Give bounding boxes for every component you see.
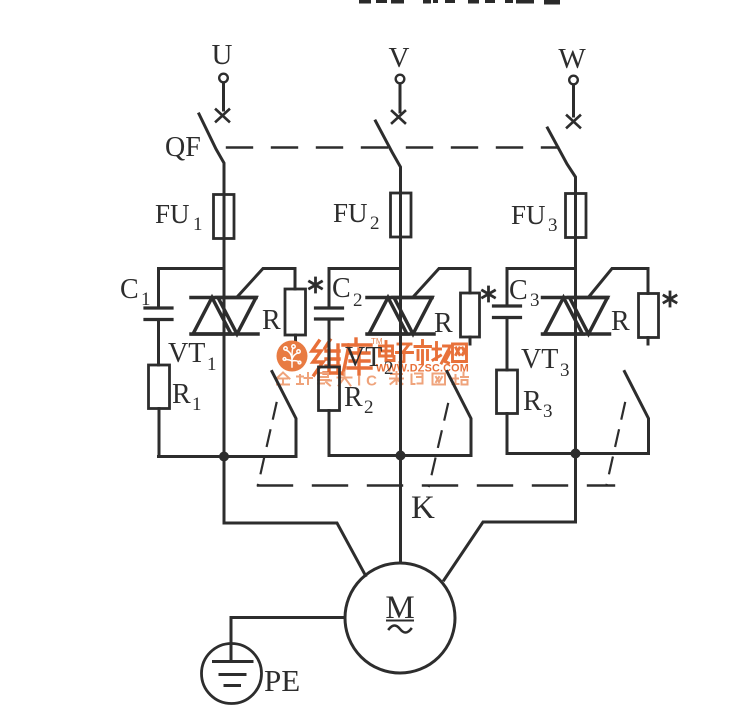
resistor R3 label: [523, 386, 553, 422]
svg-text:K: K: [411, 490, 435, 526]
resistor R label module3: [611, 306, 630, 337]
triac VT2 label: [345, 342, 394, 379]
svg-text:3: 3: [548, 215, 558, 236]
wire phase1 to motor: [224, 457, 366, 576]
capacitor C1: [145, 308, 172, 320]
svg-text:1: 1: [193, 214, 203, 235]
wire phase2 to motor: [399, 456, 402, 563]
capacitor C1 label: [120, 274, 151, 310]
contactor K pole 1 linkage dashed: [258, 403, 277, 485]
resistor R module1: [285, 289, 306, 335]
svg-text:1: 1: [207, 354, 217, 375]
contact cross U: [216, 110, 229, 122]
resistor R label module1: [262, 305, 281, 336]
wire R to contact module3: [647, 338, 650, 345]
watermark logo disc: [277, 341, 308, 372]
capacitor C2 label: [332, 273, 363, 311]
capacitor C2: [316, 308, 343, 319]
wire VT2 anode to bottom: [399, 334, 402, 456]
node U label: [212, 39, 233, 71]
wire VT1 anode to bottom: [223, 334, 226, 457]
terminal W: [569, 76, 578, 85]
motor underline: [387, 620, 413, 622]
triac VT3: [543, 298, 610, 335]
contactor K label: [411, 490, 435, 526]
wire module1 top: [159, 267, 225, 270]
triac VT1: [191, 298, 258, 335]
breaker QF pole 1 blade: [199, 114, 224, 194]
resistor R label module2: [434, 308, 453, 339]
ground PE symbol: [202, 644, 262, 704]
svg-text:R: R: [434, 308, 453, 339]
wire FU2 to module 2: [399, 237, 402, 298]
fuse FU2 label: [333, 198, 380, 234]
watermark char zi: [397, 344, 413, 363]
wire top to C2: [328, 269, 331, 309]
WATERMARK-UNDER: [277, 337, 469, 390]
svg-text:2: 2: [384, 358, 394, 379]
wire C2 to R2: [328, 319, 331, 367]
svg-text:VT: VT: [345, 342, 382, 373]
svg-text:2: 2: [353, 290, 363, 311]
watermark char chang: [433, 343, 450, 364]
node W label: [558, 43, 586, 75]
wire R3 to bottom: [506, 414, 509, 454]
resistor R2: [319, 367, 340, 411]
wire C3 to R3: [506, 318, 509, 371]
resistor R1 label: [172, 379, 202, 415]
WATERMARK-OVER: [277, 341, 308, 372]
svg-text:3: 3: [530, 290, 540, 311]
svg-text:C: C: [120, 274, 139, 305]
contactor K pole 2 blade: [447, 372, 471, 456]
wire through VT3: [574, 298, 577, 335]
watermark big char ku: [343, 339, 371, 374]
contactor K pole 1 blade: [272, 372, 296, 457]
node V label: [389, 42, 410, 74]
svg-text:V: V: [389, 42, 410, 74]
wire VT3 gate: [590, 269, 649, 297]
wire module3 top: [507, 267, 576, 270]
svg-text:R: R: [172, 379, 191, 410]
resistor R3: [497, 370, 518, 414]
svg-text:U: U: [212, 39, 233, 71]
watermark logo sprout: [283, 345, 301, 367]
wire top to C1: [157, 269, 160, 309]
svg-text:2: 2: [370, 213, 380, 234]
wire VT1 gate: [238, 269, 295, 297]
fuse FU1 label: [155, 199, 203, 235]
svg-text:VT: VT: [521, 344, 558, 375]
star mark module1: [310, 278, 322, 292]
wire through VT2: [399, 298, 402, 335]
resistor R module2: [461, 293, 480, 337]
svg-text:3: 3: [560, 360, 570, 381]
triac VT3 label: [521, 344, 570, 381]
fuse FU1: [214, 195, 235, 239]
wire phase3 to motor: [444, 454, 576, 581]
wire V terminal to contact: [399, 84, 402, 112]
wire C1 to R1: [157, 320, 160, 366]
wire FU3 to module 3: [574, 238, 577, 298]
wire top to C3: [506, 269, 509, 307]
svg-text:2: 2: [364, 397, 374, 418]
ground PE label: [264, 663, 300, 698]
wire U terminal to contact: [222, 83, 225, 110]
contactor K linkage dashed horizontal: [258, 484, 614, 486]
svg-text:VT: VT: [168, 338, 205, 369]
svg-text:C: C: [332, 273, 351, 304]
wire FU1 to module 1: [223, 239, 226, 298]
wire W terminal to contact: [572, 85, 575, 116]
watermark char shi: [415, 341, 431, 364]
watermark slogan IC: [357, 373, 382, 390]
svg-text:R: R: [262, 305, 281, 336]
svg-text:FU: FU: [155, 199, 190, 229]
wire through VT1: [223, 298, 226, 335]
wire module3 bottom: [507, 452, 649, 455]
watermark char wang: [453, 344, 467, 362]
breaker QF pole 2 blade: [376, 121, 401, 193]
breaker QF label: [165, 132, 201, 163]
title text cut off at top edge: [359, 0, 560, 5]
watermark char dian: [380, 342, 395, 361]
junction module1: [219, 452, 229, 462]
wire R1 to bottom: [158, 409, 161, 457]
resistor R2 label: [344, 382, 374, 418]
wire R to contact module1: [294, 335, 297, 344]
wire module2 bottom: [329, 454, 471, 457]
svg-text:FU: FU: [333, 198, 368, 228]
svg-text:R: R: [611, 306, 630, 337]
watermark slogan row: [277, 372, 469, 386]
triac VT1 label: [168, 338, 217, 375]
svg-text:W: W: [558, 43, 586, 75]
watermark TM mark: [371, 337, 383, 346]
motor M1: [345, 563, 455, 673]
svg-text:QF: QF: [165, 132, 201, 163]
fuse FU3: [566, 194, 587, 238]
junction module2: [396, 451, 406, 461]
wire module1 bottom: [159, 455, 297, 458]
star mark module3: [664, 292, 676, 306]
capacitor C3 label: [509, 275, 540, 311]
terminal V: [396, 75, 405, 84]
capacitor C3: [494, 306, 521, 318]
contact cross V: [392, 111, 405, 123]
wire VT2 gate: [414, 269, 470, 297]
svg-text:1: 1: [192, 394, 202, 415]
triac VT2: [367, 298, 434, 335]
wire module2 top: [329, 267, 401, 270]
wire R to contact module2: [469, 337, 472, 344]
wire motor to PE: [231, 618, 344, 645]
contactor K pole 3 linkage dashed: [607, 403, 626, 485]
fuse FU2: [391, 193, 412, 237]
motor tilde: [389, 626, 411, 633]
wire VT3 anode to bottom: [574, 334, 577, 454]
breaker QF linkage dashed: [227, 146, 558, 148]
contactor K pole 2 linkage dashed: [429, 404, 448, 486]
svg-text:3: 3: [543, 401, 553, 422]
fuse FU3 label: [511, 200, 558, 236]
svg-text:FU: FU: [511, 200, 546, 230]
watermark big char wei: [312, 340, 340, 375]
terminal U: [219, 74, 228, 83]
resistor R1: [149, 365, 170, 409]
watermark url: [376, 363, 469, 375]
breaker QF pole 3 blade: [548, 128, 576, 194]
contactor K pole 3 blade: [625, 372, 649, 454]
junction module3: [571, 449, 581, 459]
resistor R module3: [639, 294, 659, 338]
svg-text:R: R: [523, 386, 542, 417]
star mark module2: [483, 287, 495, 301]
contact cross W: [567, 116, 580, 128]
wire R2 to bottom: [328, 411, 331, 456]
svg-text:PE: PE: [264, 663, 300, 698]
motor M label: [385, 590, 414, 626]
svg-text:R: R: [344, 382, 363, 413]
svg-text:C: C: [509, 275, 528, 306]
